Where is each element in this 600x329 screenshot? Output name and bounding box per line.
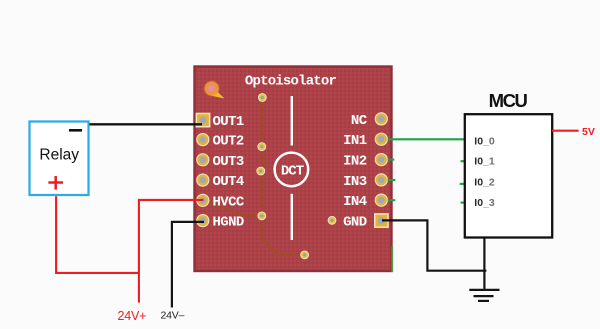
label IN2 — [343, 154, 367, 170]
svg-text:OUT4: OUT4 — [213, 174, 244, 190]
pad IN3 — [375, 173, 388, 186]
svg-text:OUT3: OUT3 — [213, 154, 244, 170]
wire stub MCU IO_3 — [461, 202, 466, 204]
label GND — [343, 215, 367, 231]
label OUT4 — [213, 174, 244, 190]
via at trace top — [258, 93, 267, 102]
svg-text:IN4: IN4 — [343, 194, 367, 210]
relay label — [39, 147, 79, 164]
pin label IO_2 — [474, 177, 495, 189]
wire stub IN3 — [388, 179, 396, 181]
via near GND pad — [328, 216, 337, 225]
wire GND pad to ground — [382, 220, 486, 270]
label HVCC — [213, 194, 245, 210]
pad HGND — [196, 214, 209, 227]
pin label IO_3 — [474, 197, 495, 209]
pad IN2 — [375, 153, 388, 166]
wire IN1 to MCU IO_0 — [388, 138, 464, 140]
wire HVCC to 24V+ — [139, 200, 204, 303]
label IN3 — [343, 174, 367, 190]
MCU title — [489, 90, 528, 111]
label OUT1 — [213, 114, 244, 130]
svg-text:I0_1: I0_1 — [474, 156, 495, 168]
svg-text:HGND: HGND — [213, 215, 244, 231]
svg-text:Optoisolator: Optoisolator — [245, 73, 337, 89]
label OUT3 — [213, 154, 244, 170]
pin label IO_0 — [474, 136, 495, 148]
via mid 2 — [256, 167, 265, 176]
pad OUT1 (square pin 1) — [196, 113, 211, 128]
via at HVCC branch — [257, 212, 266, 221]
svg-text:OUT2: OUT2 — [213, 134, 244, 150]
relay K1 box — [30, 122, 89, 196]
wire stub IN2 — [388, 159, 395, 161]
relay minus terminal — [69, 129, 82, 132]
svg-text:OUT1: OUT1 — [213, 114, 244, 130]
label 24V- — [161, 310, 185, 322]
wire stub MCU IO_2 — [460, 183, 465, 185]
label HGND — [213, 215, 244, 231]
svg-text:GND: GND — [343, 215, 367, 231]
pin label IO_1 — [474, 156, 495, 168]
wire relay minus to OUT1 — [90, 123, 203, 125]
label OUT2 — [213, 134, 244, 150]
wire stub MCU IO_1 — [461, 160, 466, 162]
board edge green sliver — [391, 246, 393, 272]
pad GND (square) — [374, 213, 389, 228]
svg-text:DCT: DCT — [281, 163, 304, 179]
pad IN1 — [375, 133, 388, 146]
label IN4 — [343, 194, 367, 210]
svg-text:IN1: IN1 — [343, 133, 367, 149]
pad IN4 — [375, 194, 388, 207]
wire HGND to 24V- — [172, 222, 204, 308]
pad NC — [375, 112, 388, 125]
svg-text:MCU: MCU — [489, 90, 528, 111]
trace vertical segment — [262, 98, 304, 255]
svg-text:I0_0: I0_0 — [474, 136, 495, 148]
svg-text:IN3: IN3 — [343, 174, 367, 190]
pad OUT3 — [196, 153, 209, 166]
label 5V — [582, 126, 595, 138]
trace HVCC branch — [203, 200, 262, 216]
wire MCU bottom to ground — [483, 239, 485, 289]
pad HVCC — [196, 194, 209, 207]
label 24V+ — [118, 309, 147, 323]
svg-text:I0_3: I0_3 — [474, 197, 495, 209]
relay plus terminal — [48, 176, 63, 190]
pad OUT2 — [196, 133, 209, 146]
MCU U3 box — [465, 114, 552, 237]
silkscreen title Optoisolator — [245, 73, 337, 89]
pad OUT4 — [196, 174, 209, 187]
opto IC symbol U2 DCT — [275, 96, 309, 240]
via mid 1 — [257, 142, 266, 151]
svg-text:Relay: Relay — [39, 147, 79, 164]
via bottom — [300, 251, 309, 260]
label NC — [351, 113, 368, 129]
LED D1 — [204, 80, 225, 98]
wire stub IN4 — [388, 199, 396, 201]
label IN1 — [343, 133, 367, 149]
optoisolator module board U1 — [195, 67, 392, 272]
svg-text:5V: 5V — [582, 126, 595, 138]
svg-text:I0_2: I0_2 — [474, 177, 495, 189]
wire 24V+ branch to relay plus — [56, 196, 139, 273]
wire MCU 5V — [552, 130, 579, 132]
svg-text:NC: NC — [351, 113, 368, 129]
svg-text:HVCC: HVCC — [213, 194, 245, 210]
ground symbol — [469, 290, 499, 301]
svg-text:IN2: IN2 — [343, 154, 367, 170]
svg-text:24V–: 24V– — [161, 310, 185, 322]
svg-text:24V+: 24V+ — [118, 309, 147, 323]
